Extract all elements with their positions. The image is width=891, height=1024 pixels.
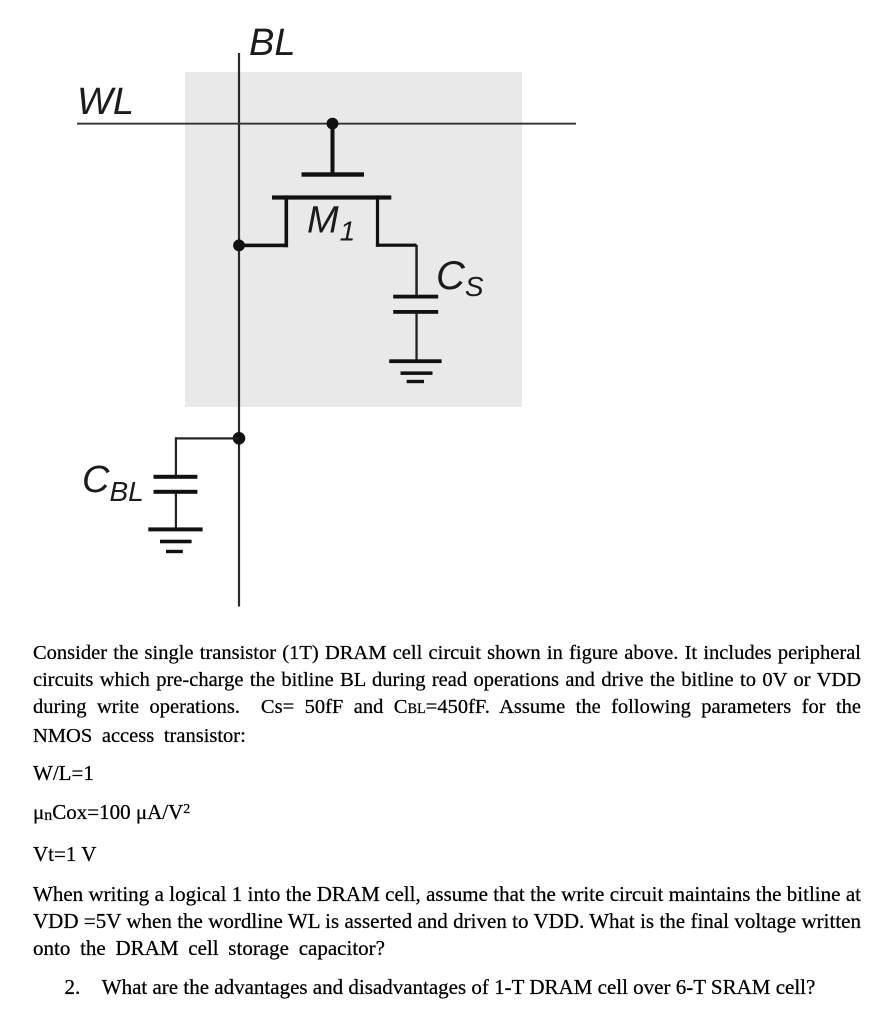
wire: wordline WL horizontal — [77, 123, 576, 125]
transistor M1 channel bar — [272, 195, 391, 199]
wire: junction to CBL — [175, 437, 239, 439]
question 2 — [33, 974, 861, 1001]
wire: source to storage cap — [376, 244, 417, 247]
wire: Cs to ground — [415, 313, 417, 362]
capacitor Cs top plate — [393, 295, 438, 299]
transistor M1 gate stem — [331, 124, 335, 177]
parameter Vt — [33, 841, 861, 868]
parameter unCox — [33, 799, 861, 828]
ground (under Cs) — [389, 359, 441, 383]
wire: stub down to Cs — [415, 245, 418, 298]
wire: drain to bitline — [239, 244, 288, 248]
svg-text:BL: BL — [249, 22, 295, 64]
parameter W/L — [33, 760, 861, 787]
svg-text:CBL: CBL — [82, 459, 144, 507]
DRAM cell boundary (shaded box) — [185, 72, 522, 407]
transistor M1 gate bar — [302, 172, 365, 176]
node: bitline-CBL junction — [233, 432, 246, 445]
capacitor Cs bottom plate — [393, 310, 438, 314]
capacitor CBL top plate — [154, 475, 198, 479]
wire: stub down to CBL — [175, 437, 177, 477]
svg-text:WL: WL — [77, 81, 134, 123]
ground (under CBL) — [148, 527, 202, 553]
problem statement paragraph 1 — [33, 640, 861, 750]
circuit diagram: 1T DRAM cell — [0, 0, 891, 630]
wire: CBL to ground — [175, 493, 177, 529]
problem statement paragraph 2 — [33, 881, 861, 961]
node: bitline-drain junction — [233, 240, 245, 252]
transistor M1 left leg (drain) — [285, 195, 289, 247]
node: gate junction on WL — [327, 118, 339, 130]
transistor M1 right leg (source) — [376, 195, 379, 246]
capacitor CBL bottom plate — [154, 490, 198, 494]
wire: bitline BL vertical — [238, 53, 240, 607]
